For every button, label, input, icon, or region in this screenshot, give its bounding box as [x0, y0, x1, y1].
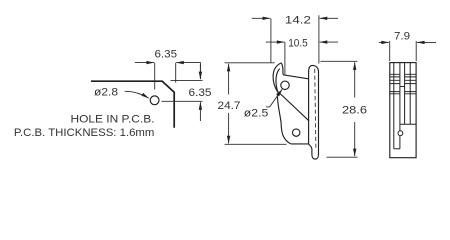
upper hole (2.5 dia): [281, 81, 289, 89]
latch hook beak inner edge: [276, 69, 280, 93]
extension line: hole centerline vertical: [154, 63, 156, 90]
extension line 10.5 left: [284, 42, 286, 74]
dimension 14.2: right arrow: [320, 17, 338, 19]
extension line 7.9 right: [415, 41, 417, 61]
extension line 28.6 bottom: [327, 156, 358, 158]
dimension 28.6: top arrow: [354, 62, 356, 97]
extension line 24.7 bottom (foot bottom level): [225, 143, 287, 145]
extension line 24.7 top (hook top level): [225, 62, 275, 64]
snap leg slot bottom: [394, 148, 400, 150]
inner vertical rib 3: [404, 63, 406, 125]
inner vertical rib 4: [409, 63, 411, 125]
mid horizontal shelf line: [400, 123, 416, 125]
extension line: PCB corner vertical above edge: [175, 63, 177, 83]
dimension 10.5: right arrow: [320, 41, 338, 43]
svg-text:24.7: 24.7: [218, 100, 241, 112]
rung lines left section: [390, 74, 400, 94]
svg-text:6.35: 6.35: [155, 49, 178, 61]
svg-text:10.5: 10.5: [288, 37, 308, 49]
latch hook right edge: [281, 63, 284, 75]
inner vertical rib 2 (slot right wall below): [399, 63, 401, 149]
arm top edge: [285, 75, 309, 79]
svg-text:HOLE IN P.C.B.: HOLE IN P.C.B.: [71, 113, 155, 125]
dimension 6.35 vertical: up arrow: [199, 102, 201, 121]
bar hidden dashed line: [315, 69, 316, 151]
foot bottom edge: [291, 143, 309, 145]
dimension 7.9: left arrow: [379, 41, 389, 43]
front view outer outline: [390, 63, 416, 158]
middle column bridge line: [400, 86, 405, 88]
extension line 7.9 left: [389, 41, 391, 61]
svg-text:ø2.5: ø2.5: [244, 107, 268, 119]
latch bar body outline: [309, 65, 319, 159]
pawl bump: [398, 131, 403, 136]
foot left edge with rounded bottom corner: [277, 93, 290, 144]
svg-text:28.6: 28.6: [342, 105, 367, 117]
dimension 28.6: bottom arrow: [354, 122, 356, 156]
leader Ø2.8: leader line with arrow to hole: [125, 91, 149, 98]
dimension 24.7: top arrow: [228, 64, 230, 95]
lower hole: [293, 129, 300, 136]
extension line 28.6 top: [321, 60, 358, 62]
dimension 6.35 vertical: down arrow: [199, 64, 201, 79]
inner vertical rib 1: [393, 63, 395, 149]
dimension 7.9: right arrow with tail: [417, 41, 436, 43]
svg-text:ø2.8: ø2.8: [94, 87, 118, 99]
dimension 10.5: left arrow: [266, 41, 285, 43]
leader Ø2.5: leader line with arrow to upper hole: [266, 89, 282, 107]
dimension 24.7: bottom arrow: [228, 113, 230, 143]
svg-text:6.35: 6.35: [189, 87, 212, 99]
hole in PCB (diameter 2.8): [150, 96, 159, 105]
svg-text:P.C.B. THICKNESS: 1.6mm: P.C.B. THICKNESS: 1.6mm: [14, 127, 155, 139]
extension line: PCB top surface to right: [171, 80, 203, 82]
dimension 6.35 horizontal: left arrow: [135, 62, 154, 64]
PCB corner edge (top edge, chamfer, right edge): [91, 81, 174, 128]
dimension 6.35 horizontal: right arrow with tail elbow down: [176, 63, 200, 79]
latch hook outer left edge: [273, 63, 281, 93]
svg-text:7.9: 7.9: [394, 31, 410, 43]
strut diagonal edge: [278, 92, 309, 121]
rung lines right section: [405, 74, 417, 94]
extension line 14.2 left: [270, 18, 272, 62]
svg-text:14.2: 14.2: [285, 15, 311, 27]
extension line 14.2/10.5 right shared: [318, 15, 320, 63]
dimension 14.2: left arrow: [252, 17, 270, 19]
extension line: hole center horizontal to right: [162, 100, 203, 102]
